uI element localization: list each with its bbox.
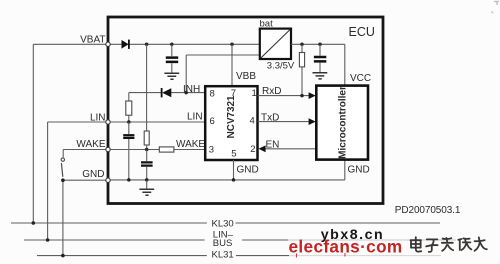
- wire EN: [265, 148, 317, 150]
- label GND: [82, 169, 104, 180]
- svg-text:8: 8: [210, 89, 215, 100]
- wire VCC rail (regulator output): [291, 44, 345, 85]
- svg-text:Microcontroller: Microcontroller: [338, 86, 349, 159]
- ground symbol (chassis below GND bus): [139, 180, 154, 195]
- svg-text:BUS: BUS: [213, 238, 233, 249]
- corner artifact top-right: [492, 2, 500, 14]
- svg-text:4: 4: [250, 115, 255, 126]
- svg-text:5: 5: [231, 148, 236, 159]
- wire VBB (to pin 7): [231, 44, 233, 86]
- capacitor C3 (LIN filter): [123, 122, 134, 180]
- wire GND bus inside ECU: [111, 160, 345, 180]
- node GND-C3 junction: [127, 178, 131, 182]
- label INH: [183, 84, 200, 95]
- label VCC: [350, 73, 371, 84]
- pin 5: [231, 148, 236, 159]
- ground symbol (C2): [313, 73, 328, 79]
- terminal VBAT: [106, 42, 110, 46]
- svg-text:2: 2: [250, 144, 255, 155]
- node VBB junction on VBAT rail: [230, 43, 234, 47]
- svg-text:PD20070503.1: PD20070503.1: [395, 205, 461, 216]
- svg-text:INH: INH: [183, 84, 200, 95]
- label TxD: [261, 112, 279, 123]
- arrow TxD (into microcontroller): [309, 118, 316, 125]
- svg-text:EN: EN: [266, 140, 280, 151]
- svg-text:TxD: TxD: [261, 112, 279, 123]
- terminal LIN: [106, 120, 110, 124]
- node VCC-C2 junction: [318, 43, 322, 47]
- diode D2 (INH): [162, 88, 172, 97]
- svg-text:6: 6: [210, 116, 215, 127]
- wire LIN external (left drop to LIN-BUS): [48, 122, 107, 240]
- pin 1: [252, 88, 257, 99]
- label bat: [260, 19, 274, 30]
- svg-text:bat: bat: [260, 19, 274, 30]
- node LIN-R1 junction: [127, 120, 131, 124]
- microcontroller U3: [316, 86, 368, 160]
- pin 3: [209, 145, 214, 156]
- capacitor C4 (WAKE filter): [141, 150, 153, 180]
- label GND (chip): [237, 165, 259, 176]
- watermark ybx8.cn: [321, 227, 384, 243]
- wire LIN inside ECU: [111, 121, 206, 123]
- svg-text:WAKE: WAKE: [76, 139, 105, 150]
- svg-text:WAKE: WAKE: [176, 139, 205, 150]
- label VBAT: [80, 35, 105, 46]
- node chip GND junction: [232, 178, 236, 182]
- wire WAKE inside ECU: [111, 149, 206, 151]
- bus line LIN-BUS: [24, 239, 456, 241]
- ground symbol (C1): [164, 73, 179, 79]
- svg-text:1: 1: [252, 88, 257, 99]
- svg-text:ECU: ECU: [349, 25, 375, 39]
- label VBB: [236, 71, 256, 82]
- svg-text:LIN: LIN: [90, 113, 106, 124]
- label KL31: [212, 250, 234, 261]
- wire GND external + switch drop to KL31: [63, 180, 107, 255]
- resistor R1 (LIN pull-up): [126, 93, 132, 122]
- svg-text:3: 3: [209, 145, 214, 156]
- svg-text:VCC: VCC: [350, 73, 371, 84]
- resistor R3 (wake pull-up): [144, 131, 149, 150]
- svg-text:7: 7: [231, 88, 236, 99]
- diode D1 (VBAT series): [122, 40, 129, 49]
- resistor R2 (WAKE series): [159, 147, 174, 152]
- voltage regulator U2 (bat 3.3/5V): [260, 29, 291, 59]
- node switch-GND junction: [61, 178, 65, 182]
- watermark red drip marks: [297, 253, 346, 258]
- svg-text:NCV7321: NCV7321: [226, 95, 237, 138]
- svg-text:GND: GND: [237, 165, 259, 176]
- switch S1 (wake switch): [61, 158, 64, 177]
- wire WAKE external: [63, 150, 107, 158]
- svg-text:3.3/5V: 3.3/5V: [267, 60, 295, 71]
- bus line KL31: [37, 255, 441, 257]
- node INH junction: [184, 91, 188, 95]
- node VBAT-C1 junction: [170, 43, 174, 47]
- label LIN (chip side): [187, 112, 203, 123]
- resistor R4 (RxD pull-up): [299, 44, 304, 95]
- terminal WAKE: [106, 147, 110, 151]
- pin 7: [231, 88, 236, 99]
- node KL30 junction: [32, 221, 36, 225]
- pin 8: [210, 89, 215, 100]
- svg-text:VBAT: VBAT: [80, 35, 105, 46]
- node RxD pull-up junction: [300, 94, 304, 98]
- svg-text:GND: GND: [82, 169, 104, 180]
- bus line KL30: [11, 222, 440, 224]
- node KL31 junction: [61, 254, 65, 258]
- label WAKE (chip side): [176, 139, 205, 150]
- wire INH net: [129, 55, 260, 93]
- watermark chinese characters: [411, 237, 487, 252]
- svg-text:KL31: KL31: [212, 250, 234, 261]
- label RxD: [262, 86, 281, 97]
- svg-text:VBB: VBB: [236, 71, 256, 82]
- label PD20070503.1: [395, 205, 461, 216]
- node WAKE junction: [145, 148, 149, 152]
- label GND (microcontroller): [348, 165, 370, 176]
- capacitor C1 (VBAT filter): [166, 44, 178, 72]
- capacitor C2 (VCC decoupling): [314, 44, 326, 72]
- arrow EN (into NCV7321): [259, 145, 266, 152]
- pin 2: [250, 144, 255, 155]
- label LIN-BUS: [213, 230, 234, 249]
- svg-text:LIN: LIN: [187, 112, 203, 123]
- watermark elecfans.com: [289, 236, 403, 256]
- arrow RxD (into microcontroller): [309, 92, 316, 99]
- node LIN-BUS junction: [46, 238, 50, 242]
- label KL30: [212, 219, 234, 230]
- svg-text:RxD: RxD: [262, 86, 281, 97]
- wire VBAT rail inside ECU: [111, 43, 260, 45]
- ECU label: [349, 25, 375, 39]
- label LIN: [90, 113, 106, 124]
- wire VBAT external (left drop to KL30): [33, 44, 107, 223]
- terminal GND: [106, 178, 110, 182]
- LIN transceiver U1 NCV7321: [205, 86, 257, 160]
- ECU enclosure box: [108, 17, 383, 204]
- wire RxD: [258, 95, 310, 97]
- node VCC-R4 junction: [300, 43, 304, 47]
- svg-text:KL30: KL30: [212, 219, 234, 230]
- pin 4: [250, 115, 255, 126]
- label WAKE: [76, 139, 105, 150]
- wire chip GND (pin 5): [233, 160, 235, 180]
- label EN: [266, 140, 280, 151]
- wire wake pull-up drop (VBAT to WAKE node): [146, 44, 148, 131]
- wire TxD: [258, 121, 310, 123]
- node GND-C4 junction: [145, 178, 149, 182]
- label 3.3/5V: [267, 60, 295, 71]
- svg-text:GND: GND: [348, 165, 370, 176]
- node VBAT-pullup junction: [145, 43, 149, 47]
- pin 6: [210, 116, 215, 127]
